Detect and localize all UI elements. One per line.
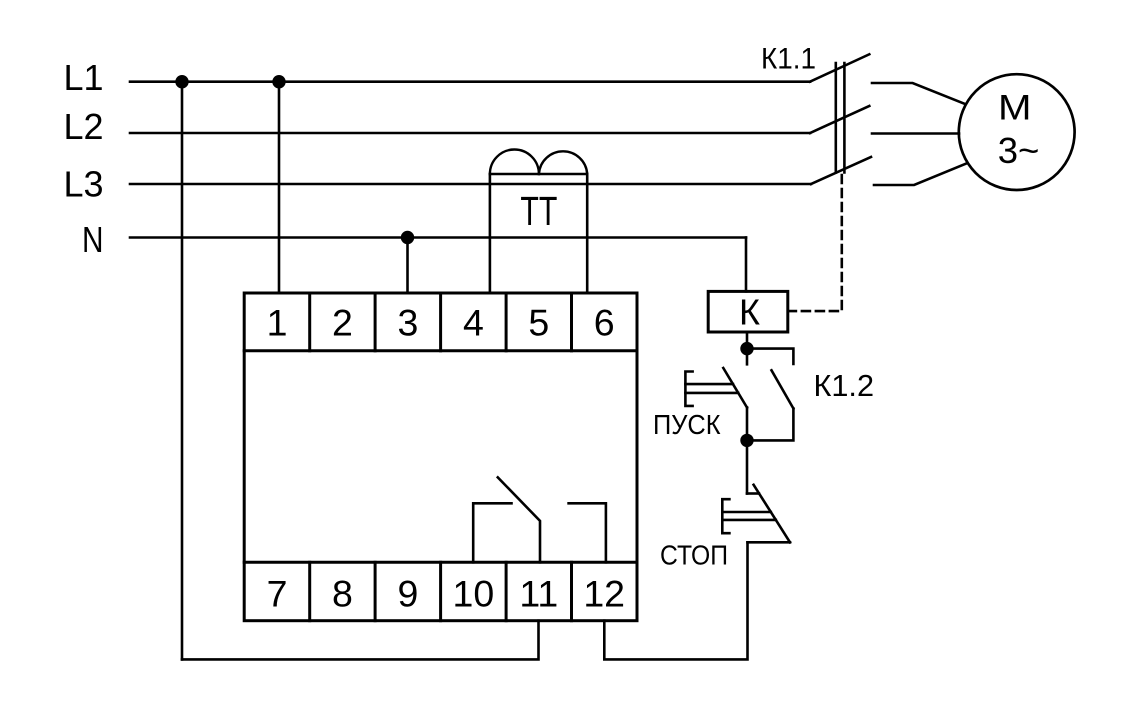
svg-text:L1: L1 — [63, 57, 103, 98]
current transformer TT left leg to terminal 4 — [489, 174, 492, 293]
svg-text:5: 5 — [528, 302, 549, 344]
start button PUSK blade — [723, 368, 747, 408]
pin 1 — [267, 302, 288, 344]
pin 7 — [267, 573, 288, 615]
wire L2 — [130, 132, 810, 135]
wire branch to K1.2 contact — [747, 349, 793, 364]
junction on N at terminal-3 drop — [401, 231, 414, 244]
svg-text:К1.1: К1.1 — [761, 43, 816, 76]
stop button actuator rod lower — [722, 519, 776, 522]
pin 9 — [397, 573, 418, 615]
svg-text:6: 6 — [594, 302, 615, 344]
start button label PUSK — [653, 409, 721, 440]
svg-text:1: 1 — [267, 302, 288, 344]
pin 8 — [332, 573, 353, 615]
relay device body U1 — [244, 293, 637, 621]
net L1 label — [63, 57, 103, 98]
junction on L1 at left drop — [175, 75, 188, 88]
motor M1 label M — [998, 87, 1032, 127]
pin 2 — [332, 302, 353, 344]
stop button label STOP — [660, 540, 728, 571]
pin 3 — [397, 302, 418, 344]
start button actuator rod lower — [685, 392, 738, 395]
terminal dividers top row — [310, 293, 572, 351]
wire contact L1 to motor — [872, 83, 966, 104]
wire contact L3 to motor — [874, 163, 967, 185]
contact K1.2 blade — [772, 370, 794, 408]
stop button actuator bracket — [722, 499, 729, 533]
pin 5 — [528, 302, 549, 344]
stop button blade — [754, 485, 790, 543]
junction below K — [740, 342, 753, 355]
svg-text:ПУСК: ПУСК — [653, 409, 721, 440]
internal output contact wire to terminal 12 — [569, 503, 606, 562]
motor M1 label 3-phase — [998, 130, 1040, 171]
start button actuator bracket — [685, 372, 692, 406]
motor M1 circle — [959, 74, 1075, 190]
relay coil K — [708, 291, 788, 332]
svg-text:М: М — [998, 87, 1032, 127]
svg-text:8: 8 — [332, 573, 353, 615]
svg-text:3~: 3~ — [998, 130, 1040, 171]
internal output contact: wire from terminal 10 — [473, 503, 511, 562]
net L3 label — [63, 164, 103, 205]
terminal dividers bottom row — [310, 562, 572, 620]
pin 11 — [519, 573, 558, 615]
wire L1 down to terminal 1 — [278, 82, 281, 293]
current transformer TT right winding arc — [539, 151, 587, 174]
wire bottom left to terminal 11 — [182, 621, 539, 660]
contact K1.1 linkage bar right — [843, 63, 846, 173]
svg-text:7: 7 — [267, 573, 288, 615]
pin 6 — [594, 302, 615, 344]
svg-text:12: 12 — [583, 573, 625, 615]
wire blade to lower junction — [746, 408, 749, 441]
internal output contact blade to terminal 11 — [498, 477, 540, 562]
svg-text:К: К — [739, 292, 760, 333]
contact K1.1 blade phase L1 — [810, 54, 869, 81]
svg-text:4: 4 — [463, 302, 484, 344]
contact K1.1 blade phase L2 — [810, 106, 869, 133]
svg-text:L3: L3 — [63, 164, 103, 205]
dashed mechanical link K coil to K1.1 — [788, 175, 842, 311]
wire N — [130, 236, 746, 239]
pin 12 — [583, 573, 625, 615]
svg-text:2: 2 — [332, 302, 353, 344]
wire L3 — [130, 183, 811, 186]
svg-text:L2: L2 — [63, 106, 103, 147]
svg-text:N: N — [82, 219, 104, 260]
svg-text:11: 11 — [519, 573, 558, 615]
stop button upper contact stub — [747, 492, 759, 495]
wire N down to terminal 3 — [406, 238, 409, 294]
svg-text:3: 3 — [397, 302, 418, 344]
wire N down to relay coil K — [745, 238, 748, 292]
current transformer TT right leg to terminal 6 — [586, 174, 589, 293]
contact K1.1 label — [761, 43, 816, 76]
relay coil K label — [739, 292, 760, 333]
net L2 label — [63, 106, 103, 147]
pin 4 — [463, 302, 484, 344]
pin 10 — [453, 573, 495, 615]
wire L1 — [130, 80, 810, 83]
contact K1.2 lower wire — [747, 409, 793, 441]
svg-text:9: 9 — [397, 573, 418, 615]
svg-text:ТТ: ТТ — [520, 188, 557, 234]
stop button lower wire — [748, 541, 791, 544]
contact K1.2 label — [814, 368, 875, 403]
stop button actuator rod upper — [722, 511, 771, 514]
wire contact L2 to motor — [872, 132, 959, 135]
svg-text:10: 10 — [453, 573, 495, 615]
wire terminal 12 to stop button — [604, 542, 747, 659]
net N label — [82, 219, 104, 260]
wire L1 down-left to bottom — [181, 82, 184, 660]
wire junction to stop button — [746, 440, 749, 493]
contact K1.1 linkage bar left — [834, 63, 837, 173]
svg-text:СТОП: СТОП — [660, 540, 728, 571]
junction on L1 at terminal-1 drop — [272, 75, 285, 88]
wire K coil to start button — [746, 332, 749, 364]
start button actuator rod upper — [685, 383, 733, 386]
current transformer TT left winding arc — [490, 149, 539, 174]
current transformer TT core bar — [490, 173, 587, 176]
junction below start button — [740, 434, 753, 447]
contact K1.1 blade phase L3 — [811, 157, 871, 184]
current transformer TT label — [520, 188, 557, 234]
svg-text:К1.2: К1.2 — [814, 368, 875, 403]
